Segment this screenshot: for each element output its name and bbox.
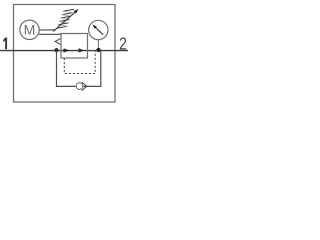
wire: motor shaft linkage bbox=[39, 29, 56, 31]
wire: bypass relief line bbox=[57, 51, 101, 87]
spring (adjustment) bbox=[57, 9, 75, 28]
wire: main flow line port 1 to port 2 bbox=[0, 50, 128, 52]
adjustment arrow bbox=[53, 9, 79, 32]
junction dot left bbox=[55, 48, 59, 52]
motor M bbox=[20, 20, 39, 39]
pressure gauge bbox=[89, 20, 108, 39]
check valve ball bbox=[76, 83, 83, 90]
regulator valve body bbox=[61, 34, 88, 59]
wire: gauge stem bbox=[97, 40, 99, 51]
flow arrow left bbox=[64, 48, 70, 52]
node 2 label bbox=[120, 37, 126, 49]
pilot triangle on valve body bbox=[55, 38, 61, 44]
wire: dashed pilot sensing line bbox=[64, 51, 95, 74]
junction dot right bbox=[96, 48, 100, 52]
check valve seat bbox=[82, 82, 87, 90]
flow arrow right bbox=[79, 48, 85, 52]
enclosure frame bbox=[14, 5, 116, 103]
node 1 label bbox=[3, 38, 7, 50]
